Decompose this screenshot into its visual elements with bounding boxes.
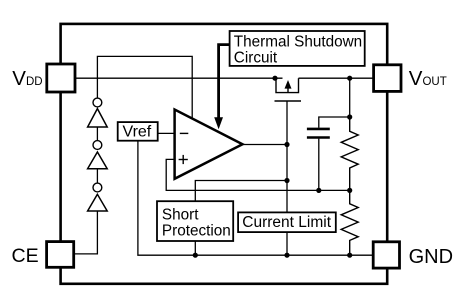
svg-text:CE: CE	[12, 245, 39, 267]
wire diode chain segment 2	[96, 169, 98, 184]
junction dot divider top	[347, 114, 352, 119]
diode D3 triangle	[88, 194, 108, 211]
wire short protection to gate line	[195, 181, 287, 202]
op-amp U1	[175, 110, 243, 179]
wire diode chain segment 1	[96, 127, 98, 141]
diode D1 circle	[93, 98, 102, 107]
block Current Limit	[238, 212, 336, 232]
diode D2 circle	[93, 141, 102, 150]
svg-text:Current Limit: Current Limit	[242, 214, 331, 231]
wire bias loop to op-amp top	[97, 56, 192, 118]
block Thermal Shutdown Circuit	[230, 31, 365, 66]
wire capacitor branch bottom	[318, 139, 320, 191]
diode D2 triangle	[88, 152, 108, 169]
junction dot short-protection ground	[193, 253, 198, 258]
svg-text:VOUT: VOUT	[409, 67, 447, 90]
op-amp minus sign	[180, 132, 189, 134]
pin box GND	[373, 242, 399, 268]
wire VOUT rail	[299, 77, 374, 79]
junction dot gate-output	[284, 142, 289, 147]
wire ground rail with Vref return	[138, 141, 373, 255]
wire current limit to ground	[286, 232, 288, 255]
block Vref	[118, 122, 158, 141]
svg-text:Short: Short	[162, 207, 199, 224]
junction dot VDD-source	[272, 76, 277, 81]
wire Vref to op-amp minus input	[158, 132, 175, 134]
junction dot R2 ground	[347, 253, 352, 258]
thermal shutdown arrow	[219, 45, 230, 119]
transistor Q1 source/drain structure	[276, 78, 299, 92]
junction dot gate-short-protection	[284, 178, 289, 183]
junction dot divider mid	[347, 188, 352, 193]
wire gate line vertical	[286, 101, 288, 212]
wire feedback to op-amp plus input	[166, 159, 350, 190]
diode D3 circle	[93, 183, 102, 192]
svg-text:Vref: Vref	[123, 123, 152, 140]
svg-text:GND: GND	[409, 246, 453, 268]
pin box VOUT	[374, 65, 401, 92]
transistor Q1 gate bar	[275, 100, 302, 102]
capacitor C1	[307, 129, 330, 138]
IC boundary	[61, 24, 388, 284]
wire VDD rail	[76, 77, 283, 79]
wire CE to diode chain	[75, 211, 97, 254]
svg-text:Protection: Protection	[162, 223, 231, 240]
op-amp plus sign	[179, 159, 188, 161]
junction dot cap-feedback	[316, 188, 321, 193]
junction dot VOUT node	[347, 76, 352, 81]
diode D1 triangle	[88, 109, 108, 127]
transistor Q1 body arrow	[285, 80, 292, 89]
resistor R2	[341, 190, 358, 255]
resistor R1	[341, 117, 358, 190]
block Short Protection	[157, 201, 233, 241]
wire op-amp output	[243, 144, 288, 146]
wire capacitor branch top	[319, 117, 350, 128]
wire short protection to ground	[194, 241, 196, 255]
junction dot current-limit ground	[284, 253, 289, 258]
pin box VDD	[47, 64, 75, 92]
svg-text:VDD: VDD	[12, 67, 42, 90]
svg-text:Thermal Shutdown: Thermal Shutdown	[234, 34, 362, 51]
wire VOUT node down to divider	[349, 78, 351, 117]
svg-text:Circuit: Circuit	[234, 50, 278, 67]
pin box CE	[47, 242, 74, 268]
